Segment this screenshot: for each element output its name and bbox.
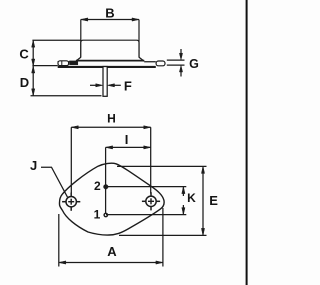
dimension line B [81, 19, 139, 21]
dimension line H [71, 126, 150, 128]
svg-text:G: G [189, 57, 199, 71]
svg-text:J: J [30, 158, 37, 173]
extension line K bottom (from pin 1) [106, 214, 186, 216]
left mounting hole [62, 193, 80, 211]
pin 1 (open dot) [104, 213, 107, 216]
extension line A right [162, 208, 164, 267]
arrow F right [113, 84, 121, 86]
leader line J [41, 167, 68, 197]
dimension line I [106, 146, 151, 148]
svg-text:A: A [107, 244, 117, 259]
mounting flange top surface (side view) [58, 61, 156, 63]
arrow F left [90, 84, 97, 86]
extension line B right / can right side [138, 20, 140, 58]
pin (side view) [103, 67, 107, 97]
dimension C extension line top [32, 39, 80, 41]
extension line K top (from pin 2) [106, 186, 186, 188]
skirt base (thick) [76, 60, 144, 62]
svg-text:B: B [105, 6, 114, 21]
svg-text:H: H [107, 111, 116, 125]
dimension C extension line bottom [32, 65, 57, 67]
extension line A left [58, 214, 60, 267]
page background [0, 0, 251, 285]
dimension line E [202, 166, 204, 235]
extension line H/I right (to right hole) [150, 127, 152, 193]
right mounting hole [142, 192, 160, 210]
dimension line D [32, 66, 34, 96]
dimension D extension line bottom [31, 95, 102, 97]
extension line B left / can left side [80, 20, 82, 58]
svg-text:F: F [124, 79, 132, 94]
mounting flange bottom surface (thick) [58, 66, 156, 68]
flange outline [59, 163, 164, 235]
extension line E top [117, 165, 207, 167]
extension line H left (to left hole) [70, 127, 72, 193]
svg-text:D: D [20, 75, 29, 90]
svg-text:E: E [209, 193, 218, 208]
transistor can body [81, 40, 139, 57]
right mounting hole (slot, edge view) [156, 61, 165, 66]
dimension K [182, 187, 184, 196]
svg-text:C: C [19, 47, 29, 62]
pin 2 (dot) [104, 185, 109, 190]
extension line I left (down to pin 2 and pin 1) [105, 147, 107, 215]
dimension G arrows [180, 49, 182, 54]
page right border [246, 0, 248, 285]
extension line E bottom [119, 234, 207, 236]
dimension line A [59, 262, 163, 264]
dark web between hole and can base [70, 61, 78, 65]
svg-text:2: 2 [94, 179, 101, 193]
svg-text:1: 1 [94, 208, 101, 222]
svg-text:I: I [125, 132, 129, 147]
svg-text:K: K [187, 191, 196, 205]
dimension G extension lines [167, 59, 185, 61]
dimension line C [32, 40, 34, 66]
left mounting hole (slot, edge view) [58, 61, 69, 66]
can skirt [76, 57, 144, 61]
